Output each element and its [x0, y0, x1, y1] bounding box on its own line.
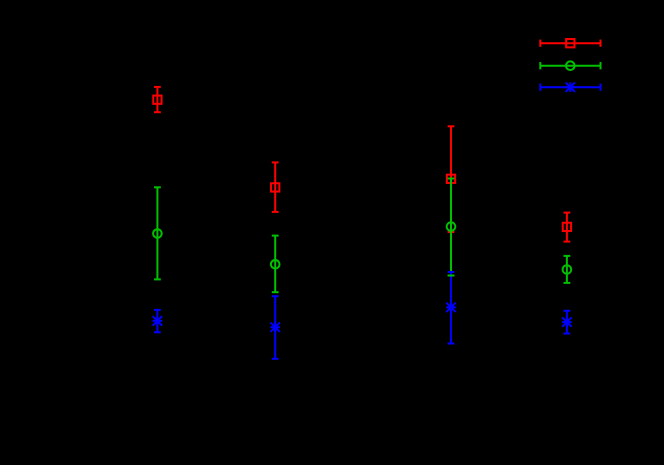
green errorbar group4 — [563, 256, 572, 283]
legend green entry — [540, 61, 600, 70]
legend blue entry — [540, 82, 600, 92]
green errorbar group3 — [447, 179, 456, 276]
green errorbar group3 bottom cap overlay — [448, 275, 455, 277]
green errorbar group1 — [153, 187, 162, 279]
blue errorbar group4 — [562, 311, 572, 334]
red errorbar group3 — [447, 126, 455, 232]
blue errorbar group3 — [446, 272, 456, 344]
red errorbar group1 — [153, 87, 161, 112]
legend red entry — [540, 39, 600, 47]
blue errorbar group1 — [153, 310, 163, 332]
red errorbar group4 — [563, 213, 571, 242]
red series (squares with errorbars) — [153, 87, 571, 242]
green errorbar group2 — [271, 236, 280, 293]
green series (circles with errorbars) — [153, 179, 571, 293]
blue errorbar group2 — [270, 296, 280, 359]
red errorbar group2 — [271, 162, 279, 212]
blue series (asterisks with errorbars) — [153, 272, 572, 359]
